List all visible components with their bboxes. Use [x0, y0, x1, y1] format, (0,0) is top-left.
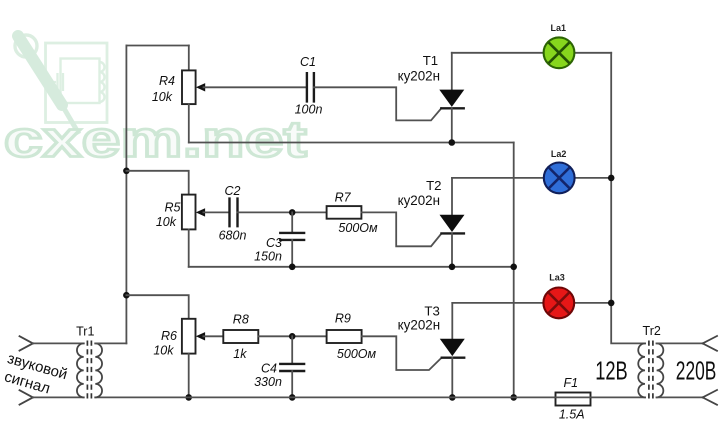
svg-text:10k: 10k	[153, 344, 174, 358]
R5 wiper arrow	[196, 208, 205, 216]
wire R5 wiper to C2	[203, 211, 229, 213]
resistor R9 500Ом body	[327, 330, 362, 343]
wire R9 to T3 gate	[362, 336, 442, 370]
R4 wiper arrow	[196, 83, 205, 91]
wire C2 to R7	[238, 211, 327, 213]
capacitor C3 150n	[291, 212, 293, 233]
input signal text звуковой сигнал	[2, 350, 69, 398]
wire row2 lamp right	[575, 177, 612, 179]
svg-text:La2: La2	[551, 149, 567, 159]
wire R7 to T2 gate	[361, 212, 441, 246]
Tr2 output terminals	[703, 336, 717, 405]
wire R8 to R9	[258, 335, 326, 337]
wire middle bus vertical	[513, 143, 515, 398]
resistor R4 (potentiometer 10k) body	[182, 70, 196, 104]
svg-text:T2: T2	[426, 178, 441, 193]
svg-text:T1: T1	[423, 53, 438, 68]
svg-text:12В: 12В	[595, 355, 628, 385]
svg-text:F1: F1	[564, 376, 579, 390]
wire top horizontal to R4	[126, 45, 188, 47]
svg-text:ку202н: ку202н	[398, 193, 440, 208]
svg-text:10k: 10k	[152, 90, 173, 104]
thyristor T3 anode lead	[451, 303, 453, 339]
wire row3 branch	[126, 295, 188, 319]
wire row1 cathode bus	[189, 142, 514, 144]
svg-text:C3: C3	[266, 236, 282, 250]
svg-text:R8: R8	[233, 313, 249, 327]
wire row2 branch	[126, 171, 188, 195]
junction T3 cathode bottom bus	[449, 394, 456, 401]
svg-text:220В: 220В	[676, 355, 717, 385]
thyristor T2 KU202N triangle	[440, 215, 465, 232]
junction middle bus bottom	[510, 394, 517, 401]
svg-text:100n: 100n	[295, 103, 323, 117]
junction left bus row3	[123, 292, 130, 299]
svg-text:R4: R4	[159, 74, 175, 88]
capacitor C2 680n plates	[230, 197, 238, 227]
svg-text:C2: C2	[225, 184, 241, 198]
transformer Tr1 input terminals	[20, 336, 33, 404]
svg-text:cxem.net: cxem.net	[4, 110, 307, 168]
junction C3 bottom	[289, 264, 296, 271]
wire left bus vertical	[125, 46, 127, 344]
T2 cathode lead	[451, 233, 453, 266]
fuse F1 1.5A	[556, 393, 591, 406]
junction C4 bottom	[289, 394, 296, 401]
wire R5 bottom lead	[188, 229, 190, 266]
cxem.net watermark logo	[4, 35, 307, 168]
junction left bus row2	[123, 168, 130, 175]
junction middle bus row2	[510, 264, 517, 271]
svg-text:C4: C4	[261, 362, 277, 376]
svg-text:R7: R7	[335, 191, 352, 205]
Tr1 core	[87, 341, 91, 401]
junction R6 bottom	[185, 394, 192, 401]
svg-text:500Ом: 500Ом	[338, 221, 378, 235]
T2 cathode bar	[440, 232, 465, 234]
wire row3 lamp left	[452, 302, 543, 304]
svg-text:La1: La1	[551, 23, 567, 33]
wire bottom bus	[95, 396, 645, 398]
wire row2 lamp left	[452, 177, 544, 179]
lamp La1 (green)	[544, 37, 575, 68]
svg-text:R9: R9	[335, 312, 351, 326]
junction C3 top node	[289, 209, 296, 216]
Tr2 right winding	[657, 343, 664, 397]
svg-text:500Ом: 500Ом	[337, 347, 377, 361]
svg-text:10k: 10k	[156, 215, 177, 229]
svg-text:La3: La3	[549, 273, 565, 283]
wire R6 bottom lead	[188, 354, 190, 398]
junction T1 cathode to row1 bus	[449, 139, 456, 146]
resistor R8 1k body	[223, 330, 258, 343]
thyristor T2 anode lead	[451, 178, 453, 215]
wire R4 top lead	[188, 46, 190, 71]
wire Tr2 secondary bottom	[657, 396, 703, 398]
svg-text:1.5A: 1.5A	[559, 408, 585, 422]
thyristor T3 KU202N triangle	[440, 339, 465, 356]
Tr1 secondary winding	[95, 343, 102, 397]
lamp La3 (red)	[543, 288, 574, 319]
svg-text:Tr1: Tr1	[76, 325, 94, 339]
wire Tr1 secondary top to left bus	[95, 342, 126, 344]
wire row1 lamp left	[452, 52, 544, 54]
junction C4 top node	[289, 333, 296, 340]
svg-text:680n: 680n	[219, 229, 247, 243]
capacitor C4 330n	[291, 336, 293, 364]
junction right bus row2	[608, 175, 615, 182]
resistor R7 500Ом body	[327, 206, 362, 219]
T3 cathode bar	[441, 357, 466, 359]
wire R4 wiper to C1	[204, 86, 307, 88]
thyristor T1 KU202N triangle	[439, 90, 464, 107]
resistor R6 (potentiometer 10k) body	[182, 319, 196, 354]
R6 wiper arrow	[196, 332, 205, 340]
thyristor T1 anode lead	[451, 53, 453, 90]
svg-text:R6: R6	[161, 329, 177, 343]
T1 cathode lead	[451, 108, 453, 142]
svg-text:T3: T3	[424, 304, 439, 319]
wire Tr1 primary top	[33, 342, 84, 344]
lamp La2 (blue)	[544, 163, 575, 194]
svg-text:330n: 330n	[254, 375, 282, 389]
svg-text:ку202н: ку202н	[398, 318, 440, 333]
T3 cathode lead	[451, 358, 453, 398]
Tr1 primary winding	[77, 343, 84, 397]
capacitor C1 100n plates	[307, 72, 314, 103]
wire R4 bottom lead	[188, 104, 190, 142]
svg-text:Tr2: Tr2	[643, 324, 661, 338]
resistor R5 (potentiometer 10k) body	[182, 195, 196, 230]
wire row2 cathode bus	[189, 266, 514, 268]
Tr2 core	[649, 341, 653, 401]
junction right bus row3	[608, 300, 615, 307]
svg-text:1k: 1k	[233, 347, 247, 361]
svg-text:ку202н: ку202н	[398, 69, 440, 84]
svg-text:150n: 150n	[254, 250, 282, 264]
svg-text:R5: R5	[165, 201, 181, 215]
wire C1 to T1 gate	[314, 87, 441, 120]
wire row1 lamp right	[574, 52, 611, 54]
wire R6 wiper to R8	[203, 335, 223, 337]
wire row3 lamp right	[574, 302, 611, 304]
svg-text:C1: C1	[300, 55, 316, 69]
Tr2 left winding	[638, 343, 645, 397]
wire Tr1 primary bottom	[33, 396, 84, 398]
T1 cathode bar	[440, 107, 465, 109]
wire Tr2 secondary top	[657, 342, 703, 344]
wire right bus vertical	[611, 53, 645, 344]
junction T2 cathode row2	[449, 264, 456, 271]
